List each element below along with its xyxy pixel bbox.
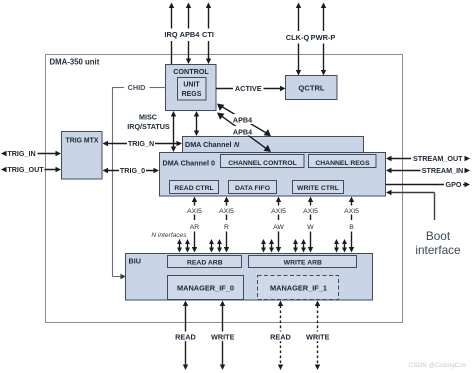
wire WRITE (MANAGER_IF_1)	[304, 301, 332, 371]
label MISC IRQ/STATUS	[127, 113, 170, 132]
block DMA Channel N	[183, 137, 364, 167]
label Boot interface	[415, 229, 461, 257]
wire CONTROL to DMA Channel N (misc irq/status)	[194, 111, 199, 136]
block READ CTRL	[170, 181, 219, 194]
wire CTI	[201, 3, 216, 65]
svg-text:AXI5: AXI5	[187, 208, 202, 215]
wire TRIG_OUT	[1, 165, 61, 175]
svg-text:ACTIVE: ACTIVE	[235, 84, 262, 93]
wire AR N-interface arrows	[177, 239, 190, 253]
wire CLK-Q	[286, 3, 310, 76]
svg-text:CHANNEL REGS: CHANNEL REGS	[315, 160, 370, 167]
wire WRITE (MANAGER_IF_0)	[210, 301, 237, 371]
label N interfaces	[151, 232, 187, 239]
svg-text:AR: AR	[190, 224, 200, 231]
svg-text:DMA-350 unit: DMA-350 unit	[50, 58, 100, 67]
svg-text:CSDN @CodingCos: CSDN @CodingCos	[409, 362, 466, 369]
svg-text:AXI5: AXI5	[303, 208, 318, 215]
svg-text:UNIT: UNIT	[183, 82, 200, 89]
svg-text:CHANNEL CONTROL: CHANNEL CONTROL	[228, 160, 297, 167]
wire B N-interface arrows	[334, 239, 347, 253]
svg-text:IRQ: IRQ	[164, 30, 177, 39]
svg-text:N: N	[234, 140, 240, 149]
wire IRQ	[163, 3, 181, 65]
svg-text:W: W	[307, 224, 314, 231]
svg-text:WRITE: WRITE	[306, 332, 330, 341]
svg-text:DMA Channel 0: DMA Channel 0	[163, 158, 215, 167]
svg-text:TRIG MTX: TRIG MTX	[66, 138, 99, 145]
svg-text:BIU: BIU	[129, 257, 141, 266]
block WRITE ARB	[249, 256, 357, 268]
svg-text:TRIG_0: TRIG_0	[120, 166, 145, 175]
block WRITE CTRL	[293, 181, 344, 194]
wire AXI5 W channel	[303, 197, 318, 253]
block QCTRL	[286, 76, 338, 100]
wire Boot interface	[386, 190, 435, 220]
wire AXI5 AW channel	[271, 197, 286, 253]
svg-text:WRITE: WRITE	[211, 332, 235, 341]
wire R N-interface arrows	[209, 239, 222, 253]
wire READ (MANAGER_IF_0)	[175, 301, 198, 371]
block DATA FIFO	[229, 181, 277, 194]
wire APB4 (top)	[179, 3, 201, 65]
wire AXI5 B channel	[344, 197, 359, 253]
svg-text:READ: READ	[270, 332, 291, 341]
svg-text:MANAGER_IF_0: MANAGER_IF_0	[177, 284, 234, 293]
wire ACTIVE	[216, 84, 286, 93]
DMA-350 unit outer boundary	[46, 55, 403, 323]
wire READ (MANAGER_IF_1)	[269, 301, 292, 371]
svg-text:STREAM_IN: STREAM_IN	[422, 166, 464, 175]
svg-text:MANAGER_IF_1: MANAGER_IF_1	[270, 284, 327, 293]
wire TRIG_IN	[1, 149, 61, 159]
wire APB4 (CONTROL to DMA Channel 0)	[217, 113, 271, 153]
wire TRIG_0	[103, 166, 160, 176]
block CHANNEL CONTROL	[221, 155, 305, 168]
svg-text:APB4: APB4	[233, 115, 252, 124]
wire PWR-P	[311, 3, 336, 76]
svg-text:MISC: MISC	[139, 113, 157, 122]
svg-text:DMA Channel: DMA Channel	[185, 140, 231, 149]
wire AW N-interface arrows	[261, 239, 274, 253]
svg-text:Boot: Boot	[426, 229, 451, 243]
svg-text:APB4: APB4	[180, 30, 201, 39]
block READ ARB	[168, 256, 242, 268]
svg-text:READ CTRL: READ CTRL	[174, 185, 213, 192]
svg-text:N interfaces: N interfaces	[151, 232, 187, 239]
wire STREAM_OUT	[386, 154, 470, 163]
wire GPO	[386, 180, 471, 189]
svg-text:R: R	[224, 224, 229, 231]
block MANAGER_IF_1	[258, 276, 339, 300]
block MANAGER_IF_0	[168, 276, 244, 300]
svg-text:READ: READ	[175, 332, 196, 341]
svg-text:DATA FIFO: DATA FIFO	[235, 185, 270, 192]
svg-text:APB4: APB4	[233, 127, 252, 136]
wire STREAM_IN	[386, 166, 470, 175]
wire TRIG_N	[103, 139, 183, 148]
svg-text:TRIG_OUT: TRIG_OUT	[7, 165, 44, 174]
wire W N-interface arrows	[293, 239, 306, 253]
block TRIG MTX	[62, 132, 103, 180]
wire AXI5 R channel	[219, 197, 234, 253]
svg-text:READ ARB: READ ARB	[187, 260, 223, 267]
wire CHID	[113, 83, 166, 279]
svg-text:PWR-P: PWR-P	[311, 33, 336, 42]
svg-text:STREAM_OUT: STREAM_OUT	[413, 154, 463, 163]
svg-text:AXI5: AXI5	[219, 208, 234, 215]
svg-text:CTI: CTI	[202, 30, 214, 39]
svg-text:QCTRL: QCTRL	[298, 84, 325, 93]
block DMA Channel 0	[160, 153, 386, 197]
svg-text:REGS: REGS	[182, 91, 202, 98]
svg-text:TRIG_IN: TRIG_IN	[7, 149, 35, 158]
svg-text:CLK-Q: CLK-Q	[286, 33, 310, 42]
svg-text:TRIG_N: TRIG_N	[128, 139, 154, 148]
svg-text:WRITE CTRL: WRITE CTRL	[297, 185, 339, 192]
svg-text:CONTROL: CONTROL	[173, 67, 209, 76]
block CHANNEL REGS	[309, 155, 377, 168]
svg-text:AXI5: AXI5	[271, 208, 286, 215]
block BIU	[126, 254, 373, 301]
watermark	[409, 362, 466, 369]
wire CONTROL to DMA Channel 0 (misc irq/status)	[171, 111, 176, 152]
svg-text:GPO: GPO	[446, 180, 462, 189]
svg-text:WRITE ARB: WRITE ARB	[284, 260, 322, 267]
block UNIT REGS	[178, 78, 207, 101]
wire AXI5 AR channel	[187, 197, 202, 253]
svg-text:AW: AW	[273, 224, 284, 231]
svg-text:B: B	[349, 224, 354, 231]
wire APB4 (CONTROL to DMA Channel N)	[217, 104, 271, 137]
block CONTROL unit	[166, 65, 217, 111]
svg-text:interface: interface	[415, 243, 461, 257]
svg-text:AXI5: AXI5	[344, 208, 359, 215]
svg-text:CHID: CHID	[128, 83, 146, 92]
svg-text:IRQ/STATUS: IRQ/STATUS	[127, 122, 170, 131]
